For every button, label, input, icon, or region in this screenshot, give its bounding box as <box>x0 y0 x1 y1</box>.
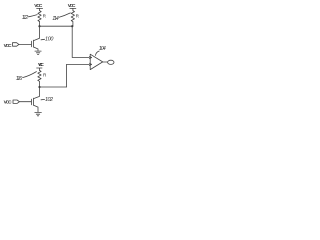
svg-text:R: R <box>43 72 47 77</box>
svg-text:116: 116 <box>16 76 23 82</box>
junction dot node A right <box>71 25 73 27</box>
wire comparator output <box>103 61 108 63</box>
VCC input port 2 <box>4 99 20 105</box>
transistor Q1 (100) gate bar <box>30 41 32 47</box>
label 104 <box>95 46 105 55</box>
wire node B to comparator lower input <box>67 64 90 87</box>
comparator input chevron lower <box>89 63 91 65</box>
transistor Q2 (102) drain lead <box>34 87 40 99</box>
comparator input chevron upper <box>89 56 91 58</box>
wire node B (horizontal) <box>40 86 67 88</box>
power rail VCC (lower) <box>37 62 45 70</box>
junction dot node A left <box>38 25 40 27</box>
svg-text:100: 100 <box>45 36 53 42</box>
power rail VCC (top left) <box>34 3 43 11</box>
wire node A to comparator upper input <box>72 26 89 57</box>
wire port1 to Q1 gate <box>19 43 32 45</box>
label 100 <box>41 36 53 42</box>
svg-text:VCC: VCC <box>34 3 43 9</box>
transistor Q2 (102) source lead <box>34 105 38 112</box>
transistor Q1 (100) channel bar <box>33 40 35 47</box>
svg-text:102: 102 <box>45 97 53 103</box>
label 112 <box>22 15 37 21</box>
resistor R1 (112) <box>38 11 47 27</box>
svg-text:R: R <box>76 13 80 18</box>
svg-text:R: R <box>43 13 47 18</box>
svg-text:VCC: VCC <box>4 99 13 105</box>
output terminal oval <box>108 60 114 64</box>
transistor Q2 (102) gate bar <box>30 99 32 105</box>
transistor Q2 (102) channel bar <box>33 98 35 105</box>
ground (under Q1) <box>35 51 41 54</box>
label 114 <box>52 13 70 22</box>
VCC input port 1 <box>4 43 19 50</box>
transistor Q1 (100) drain lead <box>34 26 40 40</box>
svg-text:VCC: VCC <box>68 3 76 9</box>
wire node A (horizontal) <box>40 25 73 27</box>
resistor R3 (116) <box>38 70 47 87</box>
label 116 <box>16 72 37 83</box>
wire port2 to Q2 gate <box>19 101 31 103</box>
svg-text:VCC: VCC <box>38 62 44 67</box>
svg-text:112: 112 <box>22 15 28 21</box>
svg-text:104: 104 <box>99 46 106 52</box>
resistor R2 (114) <box>71 11 79 27</box>
junction dot node B <box>38 86 40 88</box>
comparator U1 (104) triangle <box>90 54 103 69</box>
svg-text:VCC: VCC <box>4 43 13 49</box>
transistor Q1 (100) source lead <box>34 47 38 51</box>
svg-text:114: 114 <box>52 16 59 22</box>
label 102 <box>41 97 53 103</box>
ground (under Q2) <box>35 112 42 115</box>
power rail VCC (top right) <box>68 3 76 11</box>
